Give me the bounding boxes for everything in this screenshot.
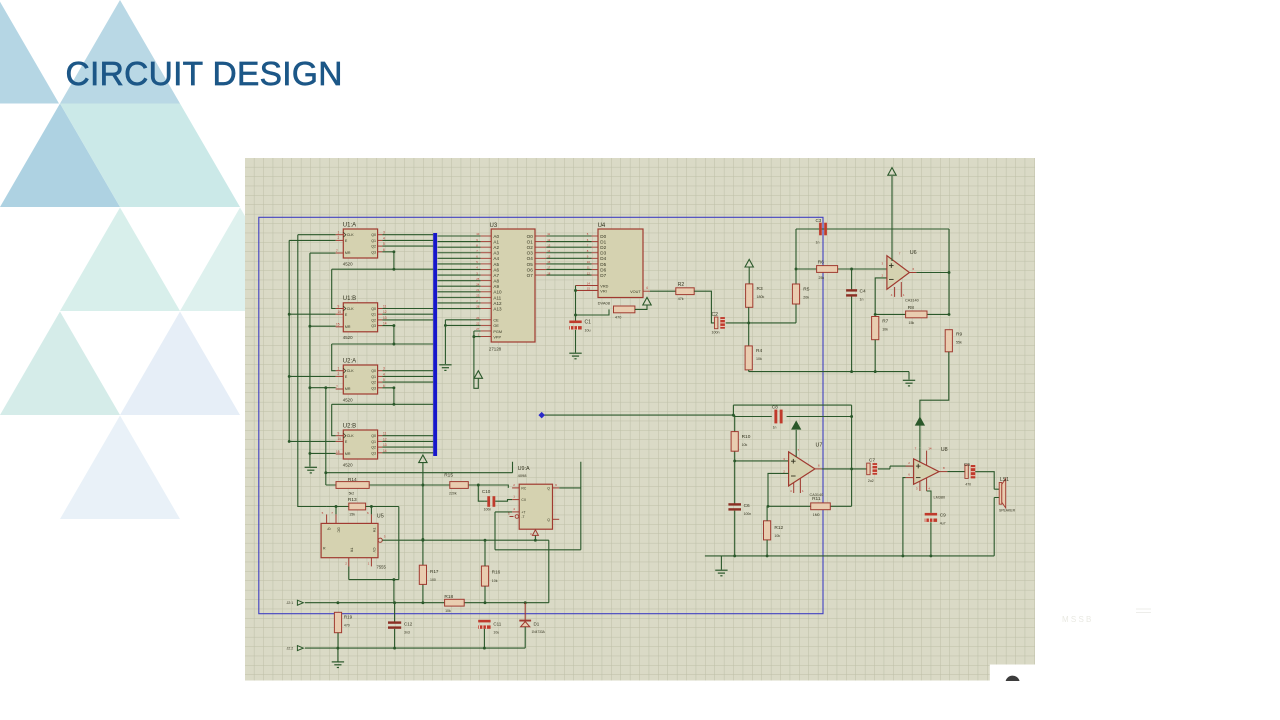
svg-text:11: 11 xyxy=(383,305,387,309)
svg-text:A13: A13 xyxy=(493,306,502,311)
svg-text:100n: 100n xyxy=(744,512,752,516)
pin numbers U8 xyxy=(908,447,945,491)
svg-text:MR: MR xyxy=(345,325,351,329)
op-amp U8 (LM380) xyxy=(906,447,948,491)
label R8 xyxy=(908,305,915,325)
wire data lines D0-D7 xyxy=(546,236,591,275)
svg-text:U6: U6 xyxy=(910,250,917,256)
svg-text:R18: R18 xyxy=(444,594,453,600)
svg-text:4: 4 xyxy=(646,286,648,290)
svg-text:R16: R16 xyxy=(492,570,501,575)
wire U1:A Q3 cascade xyxy=(332,252,434,309)
label R6 xyxy=(818,259,825,280)
svg-text:R3: R3 xyxy=(757,286,763,292)
wire C2 to R3 node xyxy=(726,322,796,324)
svg-text:D4: D4 xyxy=(600,256,606,261)
svg-text:2u2: 2u2 xyxy=(868,479,874,483)
svg-text:470: 470 xyxy=(965,482,971,486)
svg-text:VPP: VPP xyxy=(493,335,501,339)
label C8 xyxy=(772,404,778,429)
svg-text:4098: 4098 xyxy=(518,473,528,478)
svg-text:10: 10 xyxy=(338,310,342,314)
connector J2:1 xyxy=(297,600,303,605)
label C1 xyxy=(585,320,592,333)
resistor R1 xyxy=(614,306,635,313)
svg-text:3n3: 3n3 xyxy=(404,631,410,635)
label C4 xyxy=(860,289,866,302)
junction reset joints xyxy=(324,386,327,474)
svg-text:15: 15 xyxy=(587,287,591,291)
svg-text:MR: MR xyxy=(345,251,351,255)
capacitor C10 xyxy=(487,496,495,507)
IC U9:A (4098) xyxy=(510,484,560,535)
svg-text:R14: R14 xyxy=(348,477,357,483)
svg-text:10k: 10k xyxy=(774,534,780,538)
svg-text:SPEAKER: SPEAKER xyxy=(999,509,1016,513)
resistor R12 xyxy=(764,521,771,540)
ground input ground xyxy=(332,662,344,668)
label R13 xyxy=(348,497,357,516)
wire C7 to U8 xyxy=(878,466,914,469)
svg-text:1N4733A: 1N4733A xyxy=(532,630,546,634)
junction arrow column joints xyxy=(421,538,424,541)
svg-text:C6: C6 xyxy=(744,503,750,509)
junction U1:A Q3 joint xyxy=(392,250,395,270)
junction E chain joints xyxy=(288,313,291,443)
svg-text:10: 10 xyxy=(587,260,591,264)
svg-text:C8: C8 xyxy=(772,404,778,409)
wire U6 output xyxy=(916,229,949,314)
wire C12 upper xyxy=(393,580,396,622)
svg-text:VOUT: VOUT xyxy=(630,290,641,294)
svg-text:10k: 10k xyxy=(492,579,498,583)
svg-text:Q0: Q0 xyxy=(371,307,376,311)
svg-text:A8: A8 xyxy=(493,279,499,284)
svg-text:470: 470 xyxy=(344,623,350,627)
svg-text:C7: C7 xyxy=(869,458,875,464)
resistor R7 xyxy=(872,317,879,340)
junction PGM/VPP joint xyxy=(472,335,475,338)
wire U6 feedback top xyxy=(796,228,949,230)
svg-text:A10: A10 xyxy=(493,290,502,295)
svg-text:Q: Q xyxy=(547,486,550,490)
wire U7 output xyxy=(822,468,867,470)
junction output row joints xyxy=(421,539,536,542)
resistor R19 xyxy=(334,612,341,632)
svg-text:O3: O3 xyxy=(527,251,534,256)
svg-text:U3: U3 xyxy=(490,223,498,229)
svg-text:R5: R5 xyxy=(803,287,809,293)
wire R1 to power xyxy=(635,305,647,310)
svg-text:R12: R12 xyxy=(774,525,783,531)
capacitor C3 xyxy=(819,223,827,236)
svg-text:RC: RC xyxy=(521,486,526,490)
wire R14 R15 row xyxy=(326,485,509,501)
svg-text:R4: R4 xyxy=(756,348,762,354)
wire R2 to C2 xyxy=(694,291,714,323)
svg-text:A4: A4 xyxy=(493,256,499,261)
svg-text:D1: D1 xyxy=(534,621,540,626)
wire U3 PGM/VPP to power xyxy=(474,331,481,388)
svg-text:DVA08: DVA08 xyxy=(598,301,611,306)
pin numbers U5 xyxy=(322,511,386,566)
svg-text:Q3: Q3 xyxy=(371,386,376,390)
svg-text:LS1: LS1 xyxy=(1000,477,1009,483)
junction row485 joints xyxy=(421,484,479,487)
power arrow R3 supply xyxy=(745,259,753,267)
junction R10 joints xyxy=(733,459,736,462)
svg-text:R8: R8 xyxy=(908,305,914,311)
resistor R16 xyxy=(481,566,488,586)
svg-text:Q2: Q2 xyxy=(371,446,376,450)
label C7 xyxy=(868,458,875,483)
resistor R3 xyxy=(746,284,753,307)
junction R13 feed joints xyxy=(335,505,373,508)
svg-text:CV: CV xyxy=(372,548,376,554)
power arrow U7 supply xyxy=(792,422,800,430)
wire C11 bottom xyxy=(483,629,485,648)
pin numbers U9:A xyxy=(508,483,557,536)
resistor R8 xyxy=(906,311,927,318)
ground MR chain ground xyxy=(305,467,317,473)
node marker xyxy=(538,412,545,419)
svg-text:M S S B: M S S B xyxy=(1062,615,1091,624)
pin numbers U3 left xyxy=(476,232,480,336)
svg-text:U8: U8 xyxy=(941,447,948,453)
wire R3 top xyxy=(748,267,750,284)
wire C10 leads xyxy=(484,500,512,502)
svg-text:11: 11 xyxy=(587,266,590,270)
power arrow U4 ref supply xyxy=(643,297,651,305)
wire R10 column xyxy=(735,415,789,461)
svg-text:1n: 1n xyxy=(860,297,864,301)
svg-text:5: 5 xyxy=(383,242,385,246)
label R12 xyxy=(774,525,783,538)
svg-text:VRD: VRD xyxy=(600,284,608,288)
svg-text:A0: A0 xyxy=(493,234,499,239)
wire U2:B Q outputs to bus xyxy=(382,436,433,453)
capacitor C7 xyxy=(867,463,877,475)
svg-text:D6: D6 xyxy=(600,267,606,272)
label R2 xyxy=(678,282,685,301)
label R7 xyxy=(882,318,888,331)
svg-text:10u: 10u xyxy=(493,631,499,635)
wire input row xyxy=(305,540,549,603)
svg-text:O0: O0 xyxy=(527,234,534,239)
svg-text:R7: R7 xyxy=(882,318,888,324)
pin numbers U4 out xyxy=(646,286,648,290)
IC U3 (27128 EPROM) xyxy=(481,229,547,342)
wire bus to U3 address lines xyxy=(438,236,481,309)
svg-text:C9: C9 xyxy=(940,512,946,518)
counter U2:A (4520) xyxy=(336,365,383,394)
wire U1:A Q outputs to bus xyxy=(382,235,433,252)
wire reset line xyxy=(326,388,513,485)
junction U6 out joint xyxy=(948,271,951,274)
wire speaker to rail xyxy=(993,498,995,556)
svg-text:A9: A9 xyxy=(493,284,499,289)
capacitor C11 xyxy=(478,620,490,629)
svg-text:C4: C4 xyxy=(860,289,866,295)
wire U8 bypass xyxy=(927,491,931,513)
svg-text:5k2: 5k2 xyxy=(349,492,355,496)
svg-text:C2: C2 xyxy=(712,312,719,318)
svg-text:Q2: Q2 xyxy=(371,318,376,322)
svg-text:20k: 20k xyxy=(803,295,809,299)
svg-text:Q1: Q1 xyxy=(371,375,376,379)
resistor R18 xyxy=(445,599,465,606)
resistor R9 xyxy=(945,330,952,352)
svg-text:25: 25 xyxy=(476,277,480,281)
capacitor C6 xyxy=(728,503,741,510)
svg-text:25k: 25k xyxy=(819,276,825,280)
svg-text:A3: A3 xyxy=(493,251,499,256)
ground U3 ground xyxy=(439,365,451,371)
svg-text:A12: A12 xyxy=(493,301,502,306)
capacitor C4 xyxy=(846,289,857,296)
svg-text:9: 9 xyxy=(338,304,340,308)
wire U9 Q to reset line xyxy=(495,462,581,550)
resistor R17 xyxy=(419,565,426,584)
wire C12 bottom xyxy=(394,629,396,648)
pin numbers U2:A xyxy=(336,367,385,389)
power arrow U6 supply xyxy=(888,168,896,176)
wire U8 inv to rail xyxy=(903,478,906,556)
svg-text:6: 6 xyxy=(383,248,385,252)
IC U5 (7555 timer) xyxy=(321,514,382,566)
svg-text:A1: A1 xyxy=(493,239,499,244)
svg-text:10k: 10k xyxy=(882,327,888,331)
wire ground row xyxy=(305,647,525,649)
svg-text:D2: D2 xyxy=(600,245,606,250)
svg-text:4520: 4520 xyxy=(343,335,353,340)
svg-text:4520: 4520 xyxy=(343,397,353,402)
svg-text:Q0: Q0 xyxy=(371,369,376,373)
svg-text:4u7: 4u7 xyxy=(940,521,946,525)
svg-text:C5: C5 xyxy=(964,462,970,468)
counter U1:A (4520) xyxy=(336,229,383,258)
svg-text:10k: 10k xyxy=(742,443,748,447)
label R16 xyxy=(492,570,501,583)
svg-text:9: 9 xyxy=(338,432,340,436)
svg-text:R17: R17 xyxy=(430,569,439,574)
resistor R15 xyxy=(450,482,469,489)
label D1 xyxy=(532,621,546,634)
svg-text:A2: A2 xyxy=(493,245,499,250)
pin numbers U1:A xyxy=(336,231,385,253)
label C11 xyxy=(493,621,501,634)
wire U1:B Q outputs to bus xyxy=(382,309,433,326)
pin numbers U2:B xyxy=(336,432,387,454)
svg-text:LM380: LM380 xyxy=(934,495,946,499)
svg-text:TR: TR xyxy=(349,548,353,553)
junction rail joints xyxy=(733,554,932,557)
svg-text:U2:A: U2:A xyxy=(343,358,356,364)
svg-text:D1: D1 xyxy=(600,239,606,244)
svg-text:7555: 7555 xyxy=(377,565,387,570)
svg-text:2: 2 xyxy=(338,236,340,240)
svg-text:5: 5 xyxy=(383,378,385,382)
svg-text:10: 10 xyxy=(476,232,480,236)
wire U3 CE/OE to ground xyxy=(445,320,480,364)
junction R5 joints xyxy=(795,268,798,271)
wire arrow column xyxy=(422,462,424,602)
wire VOUT to R2 xyxy=(650,290,676,292)
sheet border xyxy=(259,217,823,613)
svg-text:23: 23 xyxy=(476,294,480,298)
pin numbers U7 xyxy=(783,448,820,493)
svg-text:14: 14 xyxy=(383,449,387,453)
svg-text:MR: MR xyxy=(345,387,351,391)
svg-text:14: 14 xyxy=(383,322,387,326)
label C6 xyxy=(744,503,752,516)
svg-text:4520: 4520 xyxy=(343,261,353,266)
wire U5 output row xyxy=(382,535,549,540)
svg-text:CLK: CLK xyxy=(347,233,355,237)
label R3 xyxy=(757,286,765,299)
svg-text:A7: A7 xyxy=(493,273,499,278)
ground C1 ground xyxy=(569,353,581,359)
svg-text:CLK: CLK xyxy=(347,369,355,373)
svg-text:3: 3 xyxy=(383,367,385,371)
wire C5 to speaker xyxy=(975,472,999,498)
svg-text:1n: 1n xyxy=(816,241,820,245)
svg-text:DC: DC xyxy=(337,528,341,534)
svg-text:Q3: Q3 xyxy=(371,451,376,455)
label R14 xyxy=(348,477,357,495)
svg-text:Q: Q xyxy=(327,528,331,531)
svg-text:A11: A11 xyxy=(493,295,501,300)
wire R6 row xyxy=(796,268,887,270)
label R15 xyxy=(444,472,457,495)
svg-text:4: 4 xyxy=(383,236,385,240)
svg-text:U1:B: U1:B xyxy=(343,296,356,302)
svg-text:15k: 15k xyxy=(909,321,915,325)
svg-text:D7: D7 xyxy=(600,273,606,278)
wire U6 inv input xyxy=(875,278,887,315)
wire R11 row xyxy=(830,505,851,507)
svg-text:27: 27 xyxy=(476,327,480,331)
wire R13 right loop xyxy=(349,507,399,580)
wire C9 bottom xyxy=(930,522,932,556)
junction MR chain joints xyxy=(308,325,311,455)
svg-text:O4: O4 xyxy=(527,256,534,261)
svg-text:7: 7 xyxy=(336,385,338,389)
wire R4 to bottom rail xyxy=(749,370,909,380)
svg-text:CA3140: CA3140 xyxy=(810,493,824,497)
pin numbers U3 right xyxy=(547,232,551,275)
svg-text:Q2: Q2 xyxy=(371,245,376,249)
svg-text:A5: A5 xyxy=(493,262,499,267)
svg-text:CE: CE xyxy=(493,319,499,323)
svg-text:20: 20 xyxy=(476,316,480,320)
svg-text:4520: 4520 xyxy=(343,462,353,467)
svg-text:13: 13 xyxy=(383,443,387,447)
svg-text:Q0: Q0 xyxy=(371,434,376,438)
svg-text:15: 15 xyxy=(336,450,340,454)
svg-text:10k: 10k xyxy=(445,609,451,613)
svg-text:12: 12 xyxy=(383,437,387,441)
svg-text:Q3: Q3 xyxy=(371,250,376,254)
wire E chain xyxy=(289,240,336,441)
svg-text:R6: R6 xyxy=(818,259,824,265)
junction bottom rail joints xyxy=(850,370,877,373)
svg-text:14: 14 xyxy=(587,282,591,286)
svg-text:180k: 180k xyxy=(757,295,765,299)
svg-text:13: 13 xyxy=(383,316,387,320)
op-amp U6 (CA3140) xyxy=(887,176,917,297)
svg-text:47k: 47k xyxy=(678,297,684,301)
label R10 xyxy=(742,434,751,447)
svg-text:15k: 15k xyxy=(349,512,355,516)
svg-text:U4: U4 xyxy=(598,223,606,229)
junction stage feed joints xyxy=(732,414,853,471)
svg-text:100n: 100n xyxy=(712,330,720,334)
label R17 xyxy=(430,569,439,582)
junction U2:A Q3 joint xyxy=(392,386,395,405)
wire R3 to R4 xyxy=(748,307,750,346)
svg-text:CLK: CLK xyxy=(347,307,355,311)
svg-text:7: 7 xyxy=(336,249,338,253)
svg-text:VRI: VRI xyxy=(600,289,606,293)
svg-text:D0: D0 xyxy=(600,234,606,239)
svg-text:A6: A6 xyxy=(493,267,499,272)
svg-text:CX: CX xyxy=(521,498,526,502)
svg-text:10u: 10u xyxy=(585,329,591,333)
svg-text:U2:B: U2:B xyxy=(343,423,356,429)
junction ground row joints xyxy=(336,647,485,650)
svg-text:4: 4 xyxy=(383,372,385,376)
svg-text:27128: 27128 xyxy=(489,347,502,352)
svg-text:U5: U5 xyxy=(377,514,384,520)
wire R9 to U8 supply xyxy=(920,352,949,448)
svg-text:O1: O1 xyxy=(527,239,534,244)
resistor R6 xyxy=(817,266,838,273)
wire MR chain xyxy=(310,253,336,466)
svg-text:15: 15 xyxy=(336,323,340,327)
svg-text:U1:A: U1:A xyxy=(343,222,356,228)
svg-text:6: 6 xyxy=(383,384,385,388)
speaker LS1 xyxy=(999,479,1006,508)
svg-text:3: 3 xyxy=(383,231,385,235)
op-amp U7 (CA3140) xyxy=(789,430,822,493)
resistor R10 xyxy=(731,432,738,452)
svg-text:Q2: Q2 xyxy=(371,381,376,385)
wire R7 bottom xyxy=(874,340,876,372)
svg-text:PGM: PGM xyxy=(493,330,502,334)
svg-text:470: 470 xyxy=(615,316,621,320)
svg-text:R2: R2 xyxy=(678,282,685,288)
label C3 xyxy=(816,218,822,245)
svg-text:Q0: Q0 xyxy=(371,233,376,237)
wire ground stub xyxy=(337,648,339,662)
svg-text:C12: C12 xyxy=(404,621,413,626)
counter U1:B (4520) xyxy=(336,303,383,332)
wire R19 bottom xyxy=(337,633,339,648)
label C2 xyxy=(712,312,720,334)
power arrow timer supply xyxy=(419,455,427,463)
power arrow U8 supply arrow xyxy=(916,418,924,426)
svg-text:J2:2: J2:2 xyxy=(287,647,294,651)
capacitor C5 xyxy=(965,465,975,478)
svg-text:O6: O6 xyxy=(527,267,534,272)
resistor R5 xyxy=(792,284,799,304)
svg-text:C11: C11 xyxy=(493,621,501,626)
junction U5 loop joints xyxy=(392,578,395,581)
label R5 xyxy=(803,287,809,300)
svg-text:Q1: Q1 xyxy=(371,440,376,444)
wire clock feed xyxy=(298,235,336,507)
